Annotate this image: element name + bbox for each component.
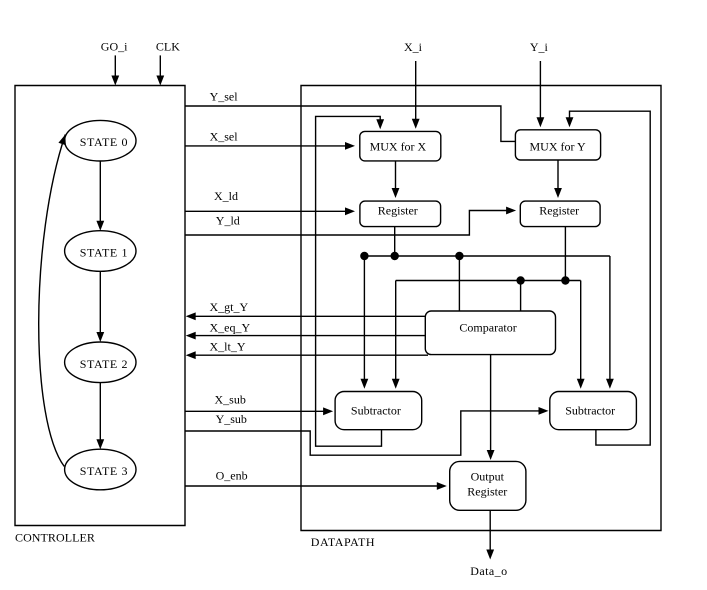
svg-text:X_eq_Y: X_eq_Y <box>210 320 251 334</box>
svg-text:GO_i: GO_i <box>101 40 128 54</box>
svg-text:Register: Register <box>539 203 579 217</box>
svg-text:CLK: CLK <box>156 40 180 54</box>
svg-text:STATE 1: STATE 1 <box>80 246 128 260</box>
svg-text:CONTROLLER: CONTROLLER <box>15 531 95 545</box>
svg-text:Y_ld: Y_ld <box>216 214 240 228</box>
svg-text:STATE 0: STATE 0 <box>80 135 128 149</box>
svg-text:X_gt_Y: X_gt_Y <box>210 300 249 314</box>
svg-text:X_sub: X_sub <box>215 393 246 407</box>
svg-text:Data_o: Data_o <box>470 564 507 578</box>
svg-text:Subtractor: Subtractor <box>565 403 615 417</box>
svg-text:Subtractor: Subtractor <box>351 403 401 417</box>
svg-text:X_sel: X_sel <box>210 129 239 143</box>
svg-text:X_i: X_i <box>404 40 423 54</box>
svg-text:Y_i: Y_i <box>530 40 549 54</box>
svg-text:Register: Register <box>378 203 418 217</box>
svg-text:Comparator: Comparator <box>459 320 516 334</box>
svg-text:X_lt_Y: X_lt_Y <box>210 340 246 354</box>
svg-text:Y_sel: Y_sel <box>210 90 239 104</box>
svg-text:X_ld: X_ld <box>214 189 238 203</box>
svg-text:O_enb: O_enb <box>216 469 248 483</box>
svg-text:STATE 2: STATE 2 <box>80 357 128 371</box>
svg-text:Register: Register <box>467 485 507 499</box>
svg-text:MUX for Y: MUX for Y <box>529 139 586 153</box>
svg-text:Output: Output <box>471 470 505 484</box>
svg-text:STATE 3: STATE 3 <box>80 464 128 478</box>
svg-text:MUX for X: MUX for X <box>370 139 427 153</box>
svg-text:DATAPATH: DATAPATH <box>311 535 375 549</box>
svg-text:Y_sub: Y_sub <box>216 412 247 426</box>
